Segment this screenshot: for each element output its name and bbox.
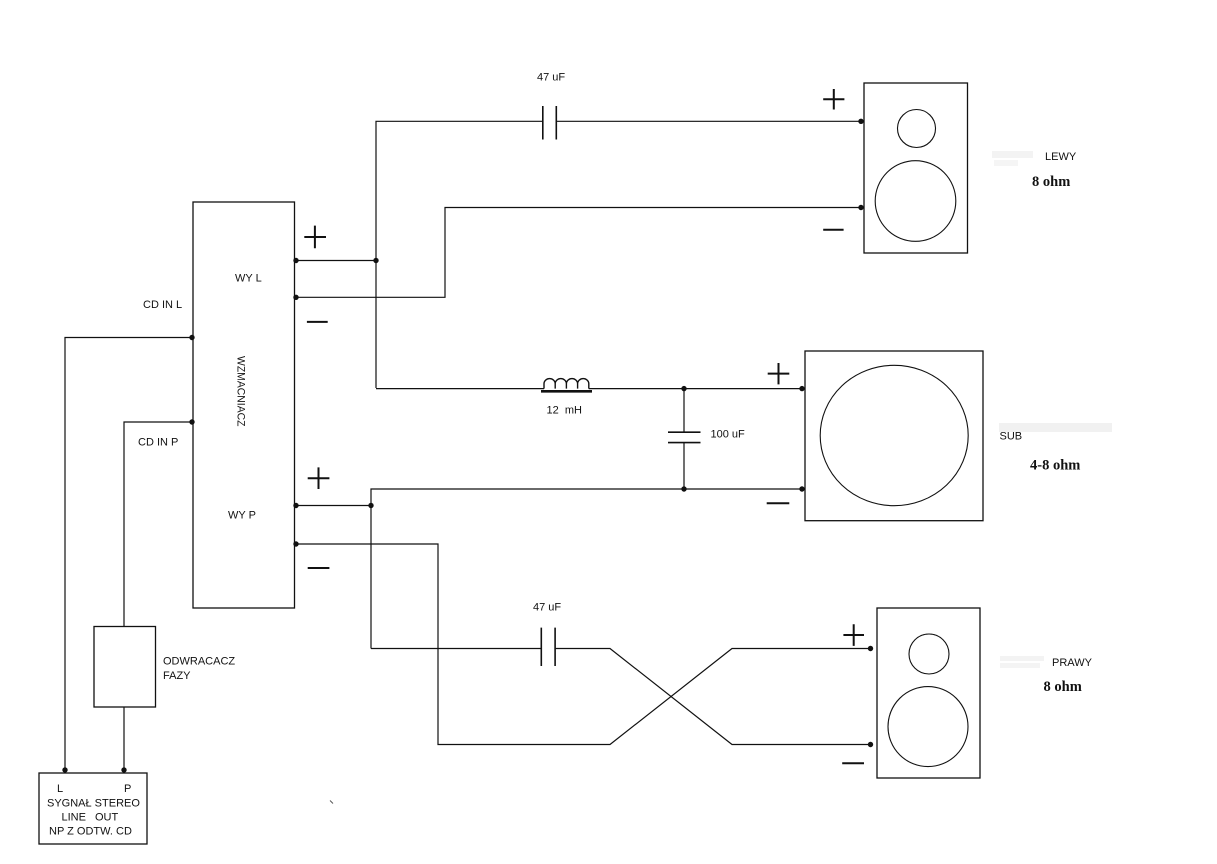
wire node A2 to 47uF bottom capacitor bbox=[371, 648, 541, 650]
label P bbox=[124, 783, 131, 795]
svg-text:CD IN L: CD IN L bbox=[143, 299, 182, 311]
svg-text:47 uF: 47 uF bbox=[537, 72, 565, 84]
wire WY L plus output bbox=[295, 260, 377, 262]
capacitor C1 47 uF bbox=[543, 106, 557, 140]
label PRAWY 8 ohm bbox=[1044, 679, 1082, 695]
junction CD IN L at amplifier bbox=[189, 335, 194, 340]
watermark smudge near LEWY bbox=[992, 151, 1033, 166]
svg-text:NP Z ODTW. CD: NP Z ODTW. CD bbox=[49, 826, 132, 838]
junction WY L plus node bbox=[373, 258, 378, 263]
plus sign PRAWY bbox=[843, 624, 864, 646]
junction WY L plus at amp bbox=[293, 258, 298, 263]
junction WY P plus node bbox=[368, 503, 373, 508]
svg-text:100 uF: 100 uF bbox=[711, 429, 746, 441]
junction bottom of C2 bbox=[681, 486, 686, 491]
junction at LEWY plus terminal bbox=[858, 119, 863, 124]
minus sign SUB bbox=[767, 502, 790, 504]
watermark smudge near PRAWY bbox=[1000, 656, 1044, 668]
junction P at source box bbox=[121, 767, 126, 772]
junction at SUB minus terminal bbox=[799, 486, 804, 491]
minus sign LEWY bbox=[823, 229, 843, 231]
junction CD IN P at amplifier bbox=[189, 419, 194, 424]
junction WY P minus at amp bbox=[293, 541, 298, 546]
label CD IN P bbox=[138, 437, 178, 449]
svg-text:SUB: SUB bbox=[1000, 431, 1023, 443]
speaker PRAWY woofer bbox=[888, 687, 968, 767]
junction CD IN L at source box bbox=[62, 767, 67, 772]
plus sign SUB bbox=[768, 363, 790, 384]
amplifier label WY P bbox=[228, 510, 256, 522]
speaker PRAWY tweeter bbox=[909, 634, 949, 674]
svg-text:PRAWY: PRAWY bbox=[1052, 657, 1093, 669]
inductor L1 12 mH bbox=[544, 379, 589, 389]
junction at PRAWY plus terminal bbox=[868, 646, 873, 651]
wire CD IN L input bbox=[65, 338, 193, 771]
label 47 uF bbox=[537, 72, 565, 84]
junction WY P plus at amp bbox=[293, 503, 298, 508]
junction at SUB plus terminal bbox=[799, 386, 804, 391]
svg-text:FAZY: FAZY bbox=[163, 670, 191, 682]
svg-text:CD IN P: CD IN P bbox=[138, 437, 178, 449]
junction at LEWY minus terminal bbox=[858, 205, 863, 210]
label OUT bbox=[95, 812, 119, 824]
label 100 uF bbox=[711, 429, 746, 441]
label SYGNAL STEREO bbox=[47, 798, 140, 810]
wire inductor to SUB plus bbox=[589, 388, 803, 390]
junction node B top of C2 bbox=[681, 386, 686, 391]
svg-text:L: L bbox=[57, 783, 63, 795]
svg-text:WY L: WY L bbox=[235, 273, 262, 285]
plus sign LEWY bbox=[823, 89, 844, 110]
minus sign WY P bbox=[308, 567, 330, 569]
svg-text:SYGNAŁ STEREO: SYGNAŁ STEREO bbox=[47, 798, 140, 810]
svg-text:LINE: LINE bbox=[62, 812, 86, 824]
amplifier U1 box bbox=[193, 202, 295, 608]
svg-text:ODWRACACZ: ODWRACACZ bbox=[163, 656, 235, 668]
svg-text:47 uF: 47 uF bbox=[533, 602, 561, 614]
stray tick mark bbox=[330, 801, 333, 804]
speaker PRAWY box bbox=[877, 608, 980, 778]
wire WY L minus to LEWY minus bbox=[295, 208, 862, 298]
wire phase inverter to source bbox=[123, 707, 125, 770]
amplifier label WZMACNIACZ (rotated) bbox=[235, 356, 247, 427]
label LEWY 8 ohm bbox=[1032, 174, 1070, 190]
svg-text:WY P: WY P bbox=[228, 510, 256, 522]
plus sign WY L bbox=[304, 226, 326, 249]
capacitor C2 100 uF leads bbox=[683, 389, 685, 489]
label SUB 4-8 ohm bbox=[1030, 458, 1080, 474]
speaker LEWY tweeter bbox=[898, 110, 936, 148]
label SUB bbox=[1000, 431, 1023, 443]
label 12 mH bbox=[547, 405, 583, 417]
wire SUB bottom return bbox=[371, 489, 803, 649]
inductor L1 core bar bbox=[541, 390, 592, 393]
capacitor C3 47 uF bbox=[541, 628, 555, 666]
svg-text:WZMACNIACZ: WZMACNIACZ bbox=[235, 356, 247, 427]
label CD IN L bbox=[143, 299, 182, 311]
svg-text:8 ohm: 8 ohm bbox=[1044, 679, 1082, 695]
label ODWRACACZ bbox=[163, 656, 235, 668]
label PRAWY bbox=[1052, 657, 1093, 669]
junction WY L minus at amp bbox=[293, 295, 298, 300]
amplifier label WY L bbox=[235, 273, 262, 285]
svg-text:8 ohm: 8 ohm bbox=[1032, 174, 1070, 190]
wire C3 to PRAWY minus (crossover) bbox=[556, 649, 873, 745]
label 47 uF bottom bbox=[533, 602, 561, 614]
wire WY P minus to PRAWY plus (crossover) bbox=[295, 544, 874, 745]
svg-text:OUT: OUT bbox=[95, 812, 119, 824]
label FAZY bbox=[163, 670, 191, 682]
source box SYGNAL STEREO bbox=[39, 773, 147, 844]
minus sign PRAWY bbox=[842, 762, 864, 764]
speaker LEWY box bbox=[864, 83, 968, 253]
wire node A up to 47uF capacitor bbox=[376, 121, 542, 388]
phase inverter box ODWRACACZ FAZY bbox=[94, 627, 156, 708]
label LEWY bbox=[1045, 151, 1077, 163]
capacitor C2 100 uF plates bbox=[668, 432, 701, 442]
svg-text:LEWY: LEWY bbox=[1045, 151, 1077, 163]
speaker SUB box bbox=[805, 351, 983, 521]
wire SUB top (left of inductor) bbox=[376, 388, 544, 390]
svg-text:12 mH: 12 mH bbox=[547, 405, 583, 417]
speaker SUB woofer bbox=[820, 365, 968, 505]
wire WY P plus output bbox=[295, 505, 372, 507]
label LINE bbox=[62, 812, 86, 824]
svg-text:P: P bbox=[124, 783, 131, 795]
minus sign WY L bbox=[307, 321, 328, 323]
plus sign WY P bbox=[308, 467, 330, 489]
label L bbox=[57, 783, 63, 795]
junction at PRAWY minus terminal bbox=[868, 742, 873, 747]
watermark smudge near SUB bbox=[999, 423, 1112, 432]
label NP Z ODTW. CD bbox=[49, 826, 132, 838]
speaker LEWY woofer bbox=[875, 161, 956, 242]
wire CD IN P input bbox=[124, 422, 193, 627]
wire C1 to LEWY plus bbox=[557, 120, 861, 122]
svg-text:4-8 ohm: 4-8 ohm bbox=[1030, 458, 1080, 474]
